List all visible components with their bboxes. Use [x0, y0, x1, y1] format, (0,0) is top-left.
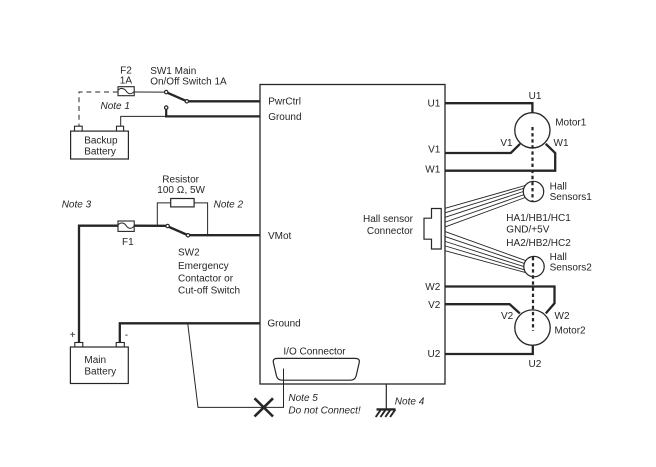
svg-text:Connector: Connector — [367, 226, 414, 237]
svg-text:W2: W2 — [555, 311, 570, 322]
svg-text:W1: W1 — [554, 138, 569, 149]
svg-text:Motor1: Motor1 — [555, 118, 587, 129]
fuse F1 — [118, 221, 134, 231]
wire W1 — [445, 144, 555, 171]
ground chassis symbol — [377, 408, 396, 410]
svg-text:V1: V1 — [500, 138, 513, 149]
wire U1 — [445, 103, 532, 113]
motor M1 — [515, 113, 550, 148]
wire Ground bottom from main battery minus — [120, 323, 260, 342]
wire V1 — [445, 144, 520, 153]
svg-text:Note 1: Note 1 — [101, 101, 130, 112]
switch SW2 blade — [169, 227, 187, 235]
switch SW2 contact circles — [166, 224, 169, 227]
svg-text:HA2/HB2/HC2: HA2/HB2/HC2 — [506, 238, 571, 249]
wire Ground top thin from backup battery — [121, 116, 167, 126]
svg-text:F1: F1 — [122, 237, 134, 248]
svg-text:I/O Connector: I/O Connector — [283, 347, 346, 358]
svg-text:Note 4: Note 4 — [395, 396, 425, 407]
svg-text:Ground: Ground — [268, 112, 301, 123]
svg-text:Note 3: Note 3 — [62, 200, 92, 211]
svg-text:PwrCtrl: PwrCtrl — [268, 96, 301, 107]
hall sensor HS2 — [524, 256, 544, 276]
svg-text:Main: Main — [84, 355, 106, 366]
svg-text:Battery: Battery — [84, 366, 116, 377]
wire PwrCtrl thick from SW1 to controller — [187, 100, 260, 102]
svg-text:Do not Connect!: Do not Connect! — [288, 406, 360, 417]
hall sensor HS1 — [523, 181, 543, 201]
svg-text:W1: W1 — [425, 165, 440, 176]
dashed shaft axis hall2 motor2 — [532, 257, 534, 331]
svg-text:U1: U1 — [428, 99, 441, 110]
battery BT1 main terminals — [75, 343, 83, 348]
wire V2 — [445, 304, 520, 313]
svg-text:Ground: Ground — [267, 319, 300, 330]
switch SW1 contact circles — [165, 90, 168, 93]
svg-text:V2: V2 — [501, 311, 514, 322]
svg-text:-: - — [125, 330, 128, 341]
motor M2 — [515, 310, 550, 345]
svg-text:V2: V2 — [428, 300, 441, 311]
svg-text:SW1 Main: SW1 Main — [150, 66, 196, 77]
battery BT1 main box — [70, 347, 128, 384]
svg-text:Motor2: Motor2 — [555, 326, 587, 337]
svg-text:Sensors1: Sensors1 — [550, 192, 593, 203]
wire from fuse F1 to SW2 — [134, 225, 166, 227]
wire PwrCtrl thin from fuse F2 to SW1 — [134, 91, 164, 93]
dashed shaft axis motor1 hall1 — [531, 127, 533, 202]
svg-text:GND/+5V: GND/+5V — [506, 224, 549, 235]
resistor R1 body — [171, 199, 194, 207]
svg-text:Cut-off Switch: Cut-off Switch — [178, 286, 240, 297]
svg-text:Resistor: Resistor — [162, 174, 199, 185]
wire W2 — [445, 287, 555, 314]
svg-text:Hall: Hall — [550, 252, 567, 263]
wire thin do-not-connect branch — [188, 323, 284, 407]
svg-text:Note 2: Note 2 — [214, 200, 244, 211]
battery BT2 backup — [75, 126, 83, 131]
svg-text:+: + — [70, 330, 76, 341]
svg-text:U1: U1 — [529, 91, 542, 102]
switch SW1 blade — [167, 93, 186, 101]
svg-text:Backup: Backup — [84, 135, 118, 146]
svg-text:Hall sensor: Hall sensor — [363, 214, 414, 225]
svg-text:On/Off Switch 1A: On/Off Switch 1A — [150, 77, 227, 88]
fuse F2 — [118, 87, 134, 96]
svg-text:W2: W2 — [425, 282, 440, 293]
svg-text:HA1/HB1/HC1: HA1/HB1/HC1 — [506, 213, 571, 224]
hall wires bundle 2 — [446, 232, 526, 261]
X mark do not connect — [255, 398, 274, 416]
svg-text:100 Ω, 5W: 100 Ω, 5W — [157, 185, 205, 196]
svg-text:U2: U2 — [529, 359, 542, 370]
hall wires bundle 1 — [446, 186, 526, 209]
svg-text:Contactor or: Contactor or — [178, 273, 234, 284]
wire VMot battery plus feed — [79, 226, 118, 343]
wire VMot thick to controller — [188, 234, 260, 236]
svg-text:SW2: SW2 — [178, 248, 200, 259]
svg-text:V1: V1 — [428, 145, 441, 156]
wire Ground top thick to controller — [165, 115, 260, 117]
svg-text:Battery: Battery — [84, 147, 116, 158]
connector J2 hall sensor body — [424, 209, 441, 250]
switch SW1 stem — [165, 109, 167, 118]
controller U1 main box — [260, 85, 445, 385]
svg-text:U2: U2 — [428, 349, 441, 360]
svg-text:Emergency: Emergency — [178, 261, 229, 272]
svg-text:Note 5: Note 5 — [288, 393, 318, 404]
svg-text:VMot: VMot — [268, 231, 292, 242]
svg-text:1A: 1A — [120, 76, 133, 87]
wire U2 — [445, 345, 533, 354]
resistor R1 leads — [157, 203, 170, 226]
wire dashed backup battery to fuse F2 — [79, 92, 118, 126]
wire chassis ground stub — [385, 384, 387, 409]
svg-text:Sensors2: Sensors2 — [550, 263, 593, 274]
connector J1 I/O body — [273, 358, 359, 380]
